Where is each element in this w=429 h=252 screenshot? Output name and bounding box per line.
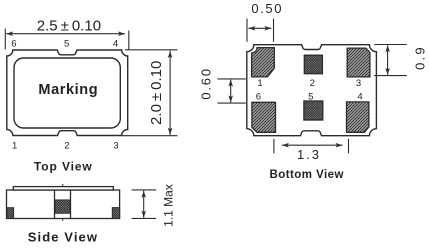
dimension 0.9 extension line top (374, 44, 407, 46)
pad label 3 (356, 78, 361, 89)
dimension 0.50 extension line right (273, 19, 275, 42)
svg-text:1: 1 (257, 78, 262, 89)
side view right terminal (112, 208, 119, 219)
svg-text:2: 2 (310, 78, 315, 89)
pad label 5 (308, 91, 313, 102)
dimension 2.0 ±0.10 line with arrows (168, 51, 173, 135)
pad 1 (hatched, chamfer bottom-right) (252, 48, 275, 77)
svg-text:Side View: Side View (28, 230, 98, 245)
svg-text:Bottom View: Bottom View (270, 169, 344, 181)
svg-text:0.50: 0.50 (251, 1, 283, 16)
svg-text:3: 3 (356, 78, 361, 89)
dimension 0.60 text (rotated) (198, 67, 213, 100)
top view inner cavity (14, 58, 120, 128)
svg-text:Top View: Top View (34, 159, 93, 173)
pin label 5 (64, 39, 69, 50)
svg-text:1: 1 (12, 141, 17, 152)
dimension 1.3 extension line left (273, 139, 275, 153)
label Top View (34, 159, 93, 173)
dimension 1.1 Max extension line top (132, 189, 157, 191)
pad label 4 (357, 91, 362, 102)
dimension 0.60 line with arrows (228, 80, 233, 103)
svg-text:2.0 ± 0.10: 2.0 ± 0.10 (148, 61, 165, 125)
dimension 0.50 extension line left (246, 19, 248, 42)
dimension 2.0 ±0.10 extension line top (125, 49, 178, 51)
dimension 0.9 extension line bottom (374, 75, 407, 77)
label Bottom View (270, 169, 344, 181)
top view package outline (7, 50, 128, 136)
dimension 0.60 extension line bottom (218, 102, 246, 104)
dimension 2.0 ±0.10 extension line bottom (122, 135, 178, 137)
pin label 3 (113, 141, 118, 152)
svg-text:1.1 Max: 1.1 Max (162, 184, 176, 227)
svg-text:Marking: Marking (38, 82, 98, 98)
side view center electrode (55, 190, 71, 219)
dimension 2.5 ±0.10 extension line right (128, 31, 130, 50)
Marking text (38, 82, 98, 98)
dimension 0.50 line with arrows (248, 26, 271, 31)
svg-text:0.9: 0.9 (412, 45, 427, 70)
pad 5 (hatched) (304, 101, 323, 120)
dimension 2.5 ±0.10 line with arrows (6, 31, 125, 36)
dimension text 1.1 Max (rotated) (162, 184, 176, 227)
svg-text:5: 5 (308, 91, 313, 102)
dimension 1.3 extension line right (348, 139, 350, 153)
pad label 2 (310, 78, 315, 89)
side view center tick top (62, 184, 64, 187)
svg-text:6: 6 (256, 91, 261, 102)
svg-text:4: 4 (357, 91, 362, 102)
dimension text 0.9 (rotated) (412, 45, 427, 70)
dimension 0.60 extension line top (218, 78, 246, 80)
label Side View (28, 230, 98, 245)
pad 2 (hatched) (304, 55, 322, 73)
pin label 2 (64, 141, 69, 152)
dimension 1.1 Max line with arrows (141, 191, 146, 218)
dimension 1.3 line with arrows (282, 143, 343, 148)
svg-text:3: 3 (113, 141, 118, 152)
bottom view package outline (247, 45, 377, 136)
pin label 1 (12, 141, 17, 152)
pad 6 (hatched, chamfer bottom-left) (252, 102, 276, 132)
svg-text:5: 5 (64, 39, 69, 50)
side view center tick bottom (62, 219, 64, 221)
pad label 6 (256, 91, 261, 102)
svg-text:1.3: 1.3 (297, 147, 321, 162)
dimension text 2.5 ± 0.10 (37, 18, 101, 35)
svg-text:4: 4 (113, 39, 118, 50)
dimension text 1.3 (297, 147, 321, 162)
side view left terminal (7, 208, 14, 219)
dimension text 2.0 ± 0.10 (rotated) (148, 61, 165, 125)
pad 3 (hatched, chamfer top-right) (347, 48, 370, 77)
side view lid (13, 187, 113, 190)
pin label 6 (11, 39, 16, 50)
svg-text:2.5 ± 0.10: 2.5 ± 0.10 (37, 18, 101, 35)
svg-text:2: 2 (64, 141, 69, 152)
pad 4 (hatched, chamfer bottom-right) (347, 102, 369, 132)
svg-text:6: 6 (11, 39, 16, 50)
dimension 0.50 text (251, 1, 283, 16)
dimension 1.1 Max extension line bottom (132, 217, 157, 219)
side view body (7, 190, 120, 219)
dimension 0.9 line with arrows (385, 45, 390, 75)
svg-text:0.60: 0.60 (198, 67, 213, 100)
pin label 4 (113, 39, 118, 50)
dimension 2.5 ±0.10 extension line left (4, 29, 6, 50)
pad label 1 (257, 78, 262, 89)
